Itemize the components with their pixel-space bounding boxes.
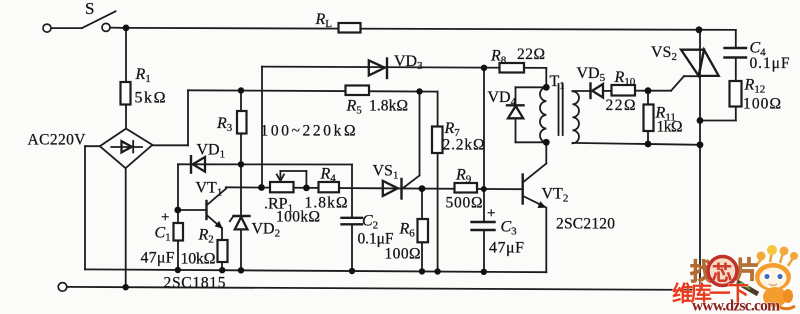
- svg-text:AC220V: AC220V: [28, 132, 87, 149]
- svg-text:+: +: [487, 206, 495, 222]
- svg-text:100~220kΩ: 100~220kΩ: [261, 123, 356, 140]
- svg-text:5kΩ: 5kΩ: [135, 90, 166, 107]
- svg-text:R3: R3: [216, 115, 233, 134]
- svg-text:100Ω: 100Ω: [385, 246, 421, 263]
- svg-text:C2: C2: [362, 213, 378, 232]
- svg-text:S: S: [85, 0, 94, 18]
- svg-text:R10: R10: [614, 69, 636, 88]
- svg-text:VD1: VD1: [197, 142, 226, 161]
- svg-text:C3: C3: [501, 219, 518, 238]
- svg-text:10kΩ: 10kΩ: [181, 251, 216, 268]
- svg-text:100Ω: 100Ω: [743, 96, 781, 113]
- svg-text:R12: R12: [744, 77, 766, 96]
- svg-text:VT2: VT2: [542, 186, 569, 205]
- svg-text:VD3: VD3: [394, 53, 423, 72]
- svg-text:1.8kΩ: 1.8kΩ: [369, 98, 408, 115]
- svg-text:VD5: VD5: [577, 65, 606, 84]
- svg-text:R6: R6: [399, 221, 416, 240]
- svg-text:www.dzsc.com: www.dzsc.com: [692, 298, 780, 314]
- svg-text:VS1: VS1: [373, 163, 399, 182]
- svg-text:VS2: VS2: [651, 44, 677, 63]
- svg-text:2.2kΩ: 2.2kΩ: [443, 137, 485, 154]
- svg-text:RL: RL: [315, 11, 333, 30]
- svg-text:R1: R1: [135, 66, 151, 85]
- svg-text:22Ω: 22Ω: [606, 97, 636, 114]
- svg-text:+: +: [161, 210, 169, 226]
- svg-text:R8: R8: [490, 48, 507, 67]
- svg-text:R4: R4: [320, 166, 337, 185]
- svg-text:0.1μF: 0.1μF: [750, 55, 790, 72]
- svg-text:R2: R2: [198, 227, 214, 246]
- svg-text:2SC1815: 2SC1815: [164, 275, 226, 292]
- svg-text:C1: C1: [155, 225, 171, 244]
- svg-text:R5: R5: [346, 98, 363, 117]
- svg-text:VD4: VD4: [488, 89, 517, 108]
- svg-text:2SC2120: 2SC2120: [556, 216, 615, 233]
- svg-text:1kΩ: 1kΩ: [657, 119, 683, 136]
- svg-text:R9: R9: [455, 167, 472, 186]
- svg-text:500Ω: 500Ω: [446, 195, 483, 212]
- svg-text:22Ω: 22Ω: [517, 46, 545, 63]
- svg-text:VT1: VT1: [196, 180, 223, 199]
- svg-text:T1: T1: [550, 73, 565, 92]
- svg-text:47μF: 47μF: [489, 240, 524, 257]
- svg-text:47μF: 47μF: [141, 250, 175, 267]
- svg-text:1.8kΩ: 1.8kΩ: [305, 195, 348, 212]
